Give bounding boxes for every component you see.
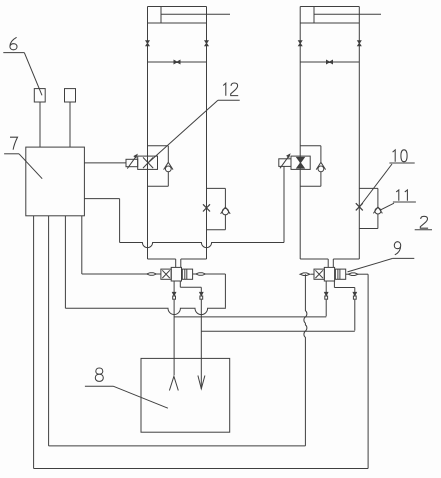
valve mid box — [171, 267, 181, 281]
label 11 — [380, 190, 416, 210]
wire controller to solenoid V12 — [84, 162, 126, 164]
throttle X on right wall C1 — [203, 204, 210, 211]
drop legs below row R2 — [325, 281, 357, 331]
wire left wall C2 — [299, 7, 301, 260]
port tick left wall C2 — [299, 41, 302, 46]
wire cap bottom C1 — [148, 22, 207, 24]
valve V12 body — [138, 156, 158, 169]
valve box fitting — [335, 269, 345, 279]
wire right wall C1 — [206, 7, 208, 260]
valve row R1 — [82, 216, 226, 307]
piston divider C1 — [160, 7, 162, 24]
wire sensor 6b to controller — [69, 102, 71, 147]
label 2 — [415, 216, 432, 229]
label 9 — [348, 242, 415, 272]
valve mid box — [324, 267, 334, 281]
piston line C2 — [300, 61, 359, 63]
wire right wall C2 — [358, 7, 360, 260]
wire row R1 right drop — [224, 274, 226, 307]
fitting marker — [300, 273, 310, 276]
piston rod C2 — [314, 13, 381, 15]
wire controller line A — [84, 166, 284, 247]
fitting marker — [147, 273, 157, 276]
wire left wall C1 — [147, 7, 149, 260]
label 10 — [360, 150, 415, 207]
wire line Q — [174, 316, 326, 318]
piston line C1 — [148, 61, 207, 63]
valve box X — [161, 269, 171, 279]
label 8 — [85, 368, 168, 408]
bottom edge right C2 — [333, 258, 359, 260]
wire line P wavy — [65, 216, 225, 315]
check valve CV4 (11) — [373, 207, 382, 214]
outlet stub left C1 — [175, 259, 177, 268]
valve row R2 — [300, 267, 368, 281]
mini check valve — [173, 292, 176, 295]
outlet stub right C1 — [180, 259, 182, 268]
discharge arrow into tank — [198, 375, 205, 389]
bypass loop around V12 — [148, 146, 169, 187]
mini check valve — [200, 292, 203, 295]
valve box fitting — [182, 269, 192, 279]
bypass loop right wall C2 — [359, 188, 378, 228]
drop legs below row R1 — [173, 281, 203, 375]
label 7 — [4, 137, 42, 179]
solenoid of valve V12 — [126, 155, 138, 169]
piston marker C2 — [327, 60, 333, 63]
piston divider C2 — [313, 7, 315, 24]
solenoid of valve V2 — [279, 154, 291, 168]
label 6 — [3, 37, 42, 95]
bottom edge left C2 — [300, 258, 328, 260]
port tick right wall C2 — [358, 41, 361, 46]
bypass loop right wall C1 — [207, 188, 226, 229]
wire inner bottom rectangle — [49, 216, 306, 446]
wire outer bottom rectangle — [34, 216, 369, 469]
piston marker C1 — [174, 60, 180, 63]
port tick left wall C1 — [146, 41, 149, 46]
port tick right wall C1 — [205, 41, 208, 46]
bottom edge right C1 — [181, 258, 207, 260]
wire inner drop from row R2 with hops — [304, 274, 307, 446]
wire line R — [201, 330, 354, 332]
mini check valve — [353, 292, 356, 295]
wire top edge C1 — [148, 6, 207, 8]
sensor box 6a — [34, 89, 45, 102]
wire from controller to row R1 — [81, 216, 83, 274]
tank box 8 — [141, 358, 230, 432]
wire cap bottom C2 — [300, 22, 359, 24]
jog to second leg — [333, 281, 335, 288]
piston rod C1 — [161, 13, 230, 15]
sensor box 6b — [65, 89, 76, 102]
bottom edge left C1 — [148, 258, 176, 260]
valve box X — [314, 269, 324, 279]
outlet stub left C2 — [327, 259, 329, 268]
check valve CV2 — [221, 207, 231, 215]
throttle X10 on right wall C2 — [356, 203, 363, 210]
fitting marker — [348, 273, 358, 276]
label 12 — [149, 83, 240, 163]
jog to second leg — [179, 281, 181, 287]
check valve CV1 — [164, 162, 173, 172]
cylinder C1 body — [146, 7, 230, 268]
cylinder C2 body — [299, 7, 381, 268]
mini check valve — [325, 292, 328, 295]
outlet stub right C2 — [332, 259, 334, 268]
suction arrow into tank — [169, 376, 178, 390]
check valve CV3 — [316, 162, 325, 172]
fitting marker — [196, 273, 206, 276]
controller box U7 — [26, 147, 85, 216]
wire sensor 6a to controller — [39, 102, 41, 147]
wire top edge C2 — [300, 6, 359, 8]
valve V2 body — [291, 156, 310, 169]
bypass loop around V2 — [300, 146, 321, 187]
